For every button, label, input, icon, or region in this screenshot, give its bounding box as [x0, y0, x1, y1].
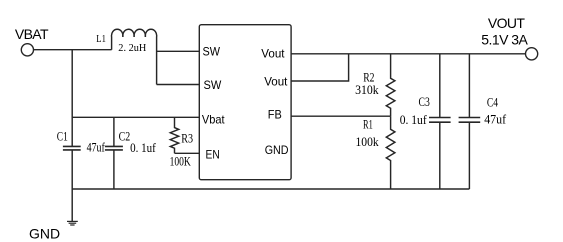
capacitor C3 — [429, 118, 451, 123]
resistor R2 — [386, 54, 395, 116]
svg-text:GND: GND — [29, 225, 60, 241]
svg-text:FB: FB — [268, 107, 282, 121]
wire rail to C3 — [439, 54, 441, 117]
wire Vout pin 2 step — [291, 54, 349, 81]
svg-text:SW: SW — [204, 78, 222, 92]
wire L1 to SW pin 1 — [157, 50, 200, 52]
terminal VOUT — [526, 48, 538, 60]
wire Vout rail — [291, 53, 525, 55]
inductor L1 — [112, 29, 157, 84]
svg-text:GND: GND — [265, 143, 289, 157]
svg-text:0. 1uf: 0. 1uf — [130, 141, 156, 155]
IC U1 — [199, 25, 291, 180]
svg-text:100k: 100k — [356, 135, 380, 149]
svg-text:C3: C3 — [419, 95, 430, 109]
resistor R1 — [386, 116, 395, 189]
svg-text:L1: L1 — [96, 34, 106, 45]
svg-text:SW: SW — [203, 45, 221, 59]
svg-text:47uf: 47uf — [87, 140, 106, 154]
wire VBAT to L1 — [34, 49, 112, 51]
svg-text:VBAT: VBAT — [15, 26, 49, 42]
svg-text:EN: EN — [206, 148, 220, 162]
wire C4 to ground bus — [468, 123, 470, 189]
ground — [67, 221, 78, 225]
svg-text:R1: R1 — [363, 118, 373, 132]
svg-text:VOUT: VOUT — [488, 15, 525, 31]
svg-text:C2: C2 — [119, 130, 131, 144]
wire Vbat rail — [72, 116, 199, 118]
capacitor C1 — [63, 146, 81, 150]
capacitor C4 — [459, 118, 481, 123]
wire rail to C4 — [468, 54, 470, 117]
svg-text:100K: 100K — [170, 154, 191, 168]
capacitor C2 — [105, 146, 123, 150]
svg-text:C4: C4 — [487, 95, 499, 109]
svg-text:Vbat: Vbat — [202, 113, 225, 127]
wire C3 to ground bus — [439, 123, 441, 189]
svg-text:R3: R3 — [181, 131, 193, 145]
wire L1 to SW pin 2 — [157, 84, 200, 86]
wire input branch down to C1 — [71, 50, 73, 146]
svg-text:Vout: Vout — [264, 74, 288, 88]
terminal VBAT — [21, 44, 33, 56]
wire R3 to EN — [175, 152, 200, 154]
svg-text:0. 1uf: 0. 1uf — [400, 113, 428, 127]
wire C1 to ground bus — [71, 150, 73, 189]
svg-text:C1: C1 — [57, 130, 68, 144]
svg-text:2. 2uH: 2. 2uH — [118, 43, 146, 54]
wire C2 to ground bus — [113, 150, 115, 189]
wire bus to ground symbol — [71, 189, 73, 221]
wire ground bus — [72, 188, 469, 190]
svg-text:310k: 310k — [355, 83, 379, 97]
wire FB to divider — [291, 115, 391, 117]
wire Vbat rail to C2 — [113, 117, 115, 146]
resistor R3 — [170, 117, 178, 153]
svg-text:Vout: Vout — [261, 47, 285, 61]
svg-text:47uf: 47uf — [484, 113, 507, 127]
svg-text:5.1V 3A: 5.1V 3A — [481, 32, 528, 48]
